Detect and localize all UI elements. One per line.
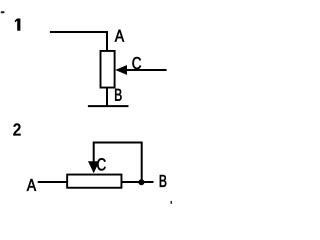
wiper arrow C (circuit 2, pointing down into resistor) (88, 161, 99, 173)
node B label (circuit 2) (160, 175, 166, 187)
wire: terminal B of potentiometer 2 (121, 181, 154, 183)
node A label (circuit 2) (27, 179, 36, 191)
wire: terminal A of potentiometer 2 (38, 181, 68, 183)
wire: terminal B of potentiometer 1 (down from resistor bottom) (106, 88, 108, 106)
node A label (circuit 1) (115, 30, 124, 42)
resistor body R1 (potentiometer 1, vertical) (101, 51, 115, 88)
node C label (circuit 1) (132, 57, 140, 69)
wire: bottom rail at terminal B (circuit 1) (88, 105, 129, 107)
wiper arrow C (circuit 1, pointing left into resistor) (115, 65, 127, 75)
figure label 1 (15, 19, 21, 31)
resistor body R2 (potentiometer 2, horizontal) (67, 175, 121, 188)
figure label 2 (13, 123, 21, 135)
edge artifact speck bottom-right (171, 201, 173, 204)
wire: terminal A of potentiometer 1 (horizontal then down to resistor top) (50, 32, 107, 51)
edge artifact dash top-left (1, 11, 5, 13)
node B label (circuit 1) (115, 89, 121, 101)
junction dot (wiper tied to terminal B) (138, 179, 144, 185)
wire: wiper terminal C (circuit 1) (126, 69, 167, 71)
wire: wiper C loop to terminal B (circuit 2) (94, 143, 142, 183)
node C label (circuit 2) (97, 158, 105, 170)
